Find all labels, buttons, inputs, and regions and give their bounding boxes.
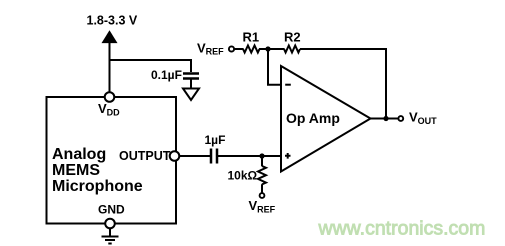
capacitor C1 plates	[183, 74, 199, 79]
wire VREF to R1	[235, 48, 244, 50]
wire R2 to feedback	[300, 49, 386, 117]
svg-text:1.8-3.3 V: 1.8-3.3 V	[87, 14, 138, 28]
microphone box	[47, 97, 177, 224]
svg-text:OUTPUT: OUTPUT	[119, 149, 171, 163]
svg-text:GND: GND	[98, 203, 125, 217]
resistor R3 10k zigzag	[258, 166, 266, 184]
wire cap to ground	[190, 79, 192, 88]
wire gnd lead	[109, 228, 111, 237]
supply arrow	[102, 30, 118, 43]
capacitor C2 plates	[211, 149, 217, 164]
ground (bars)	[102, 237, 119, 244]
svg-text:0.1µF: 0.1µF	[151, 68, 182, 82]
wire output	[371, 118, 399, 120]
terminal VREF circle top	[229, 46, 234, 51]
svg-text:Microphone: Microphone	[52, 178, 143, 195]
wire junction down to minus input	[268, 49, 281, 85]
op-amp minus sign	[285, 84, 291, 86]
node output junction	[383, 116, 388, 121]
pin OUTPUT node circle	[170, 151, 180, 161]
wire branch to bypass cap	[109, 60, 191, 72]
wire C2 to op-amp plus input	[218, 155, 281, 157]
svg-text:1µF: 1µF	[205, 133, 226, 147]
terminal VOUT circle	[398, 116, 403, 121]
svg-text:MEMS: MEMS	[52, 162, 100, 179]
node junction at R3 top	[259, 153, 264, 158]
op-amp U1 triangle	[281, 66, 371, 172]
node junction R1/R2	[265, 46, 270, 51]
wire R1 to junction	[259, 48, 285, 50]
pin VDD node circle	[105, 92, 115, 102]
svg-text:R1: R1	[243, 30, 260, 45]
svg-text:www.cntronics.com: www.cntronics.com	[318, 218, 486, 240]
terminal VREF circle	[260, 193, 265, 198]
wire OUTPUT to C2	[179, 155, 210, 157]
svg-text:10kΩ: 10kΩ	[228, 169, 258, 183]
resistor R1 zigzag	[243, 46, 260, 53]
resistor R2 zigzag	[284, 46, 300, 53]
svg-text:R2: R2	[284, 30, 301, 45]
wire junction to R3	[261, 157, 263, 166]
svg-text:Analog: Analog	[52, 146, 106, 163]
wire supply stem	[109, 41, 111, 93]
svg-text:Op Amp: Op Amp	[286, 110, 340, 126]
op-amp plus sign	[285, 153, 291, 159]
ground (hollow triangle)	[183, 89, 199, 101]
pin GND node circle	[105, 219, 115, 229]
wire R3 to VREF terminal	[261, 184, 263, 192]
